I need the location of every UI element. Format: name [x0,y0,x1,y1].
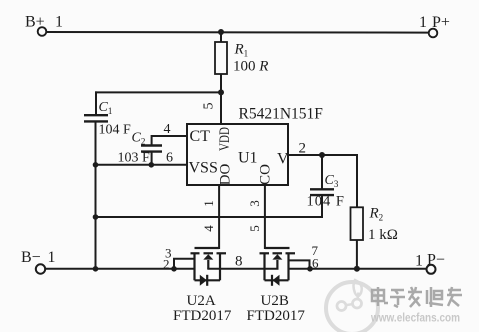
wire C2 bottom lead [151,152,153,165]
junction top rail with R1 [218,29,224,35]
svg-text:U1: U1 [238,150,258,167]
svg-text:6: 6 [166,151,173,166]
wire top rail from B+ to P+ [46,31,429,34]
svg-text:104 F: 104 F [99,123,132,138]
svg-text:FTD2017: FTD2017 [247,308,306,324]
wire IC pin 2 V horizontal [288,154,357,156]
wire common drain node 8 segment [208,268,277,270]
IC U1 R5421N151F body [187,124,288,185]
wire C3 bottom horizontal to left vertical [96,216,323,218]
svg-text:VSS: VSS [189,160,218,177]
svg-text:P−: P− [427,252,445,269]
svg-text:B+: B+ [25,14,45,31]
svg-text:1: 1 [55,14,63,31]
capacitor C1 [84,115,108,121]
wire C3 bottom lead [321,196,323,217]
junction B- rail with left vertical [93,266,99,272]
wire left vertical from C1 bottom to B- rail [95,122,97,269]
watermark logo circle [326,280,378,332]
wire U2B pin 7 stub [289,260,310,268]
svg-text:2: 2 [299,141,307,157]
wire IC pin 3 CO vertical to gate of U2B [264,185,266,248]
junction P- rail with U2B pin 7 stub [307,266,313,272]
wire R2 bottom lead [356,240,358,269]
junction VSS wire with C2 bottom [149,162,155,168]
svg-text:FTD2017: FTD2017 [173,308,232,324]
svg-text:6: 6 [312,255,319,270]
svg-text:8: 8 [235,254,243,270]
wire VDD branch horizontal to C1 [96,91,221,93]
wire C1 top lead [95,92,97,114]
svg-text:1: 1 [48,249,56,266]
wire IC pin 6 VSS horizontal [96,164,188,166]
svg-text:www.elecfans.com: www.elecfans.com [370,311,460,325]
svg-text:5: 5 [202,103,217,110]
svg-text:1: 1 [201,200,216,207]
svg-text:1: 1 [419,14,427,31]
svg-text:V: V [277,151,289,168]
svg-text:CT: CT [190,128,211,145]
terminal 1 P- [415,252,445,274]
svg-text:VDD: VDD [217,127,233,151]
svg-text:P+: P+ [432,14,450,31]
svg-text:B−: B− [21,249,41,266]
svg-text:4: 4 [201,225,216,232]
junction R1 bottom with C1 branch [218,89,224,95]
svg-text:R5421N151F: R5421N151F [239,106,324,123]
svg-text:U2A: U2A [187,293,216,309]
svg-text:2: 2 [163,256,170,271]
svg-text:CO: CO [258,164,274,185]
junction C3 return wire with left vertical [93,214,99,220]
transistor U2A MOSFET [191,248,227,286]
capacitor C3 [310,189,334,195]
wire R2 top lead vertical [356,155,358,207]
terminal B+ 1 [25,14,63,36]
wire C3 top lead [321,155,323,188]
wire IC pin 4 CT to C2 top [152,136,187,145]
svg-text:3: 3 [247,200,262,207]
wire IC pin 5 VDD vertical [220,92,222,124]
svg-text:1 kΩ: 1 kΩ [368,227,398,243]
wire B- rail left segment [45,268,195,270]
junction pin 2 wire with C3 top [319,152,325,158]
wire R1 top lead [220,32,222,42]
capacitor C2 [141,146,162,152]
resistor R1 [215,42,227,74]
svg-text:4: 4 [164,122,171,137]
svg-text:5: 5 [247,225,262,232]
wire U2A pin 3 stub [174,259,195,269]
watermark text dian zi fa shao you [372,287,462,307]
wire IC pin 1 DO vertical to gate of U2A [218,185,220,248]
svg-text:103 F: 103 F [118,151,151,166]
svg-text:DO: DO [218,164,234,186]
junction B- rail with U2A pin 3 stub [171,266,177,272]
transistor U2B MOSFET [260,248,296,286]
svg-text:U2B: U2B [261,293,289,309]
svg-text:1: 1 [415,253,423,270]
terminal B- 1 [21,249,56,274]
svg-text:100 R: 100 R [233,59,268,75]
terminal 1 P+ [419,14,450,37]
svg-text:104 F: 104 F [307,194,345,210]
resistor R2 [351,207,364,240]
wire P- rail right segment [289,268,427,270]
junction VSS wire with left vertical [93,162,99,168]
junction P- rail with R2 bottom [354,266,360,272]
wire R1 bottom lead [220,74,222,92]
